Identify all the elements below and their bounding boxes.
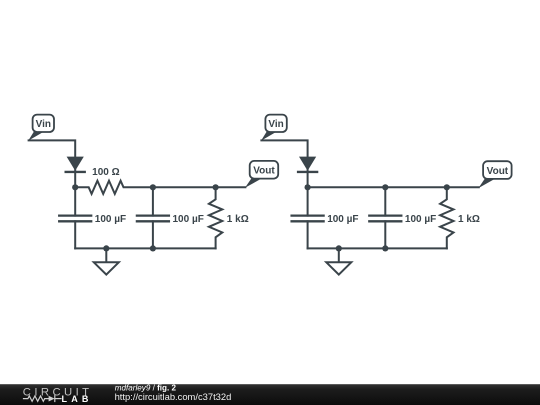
node junction mid rail bottom (left) [150,245,156,251]
net flag Vout (right) [478,161,511,188]
wire Vin left to diode [29,140,76,187]
net flag Vin (left) [28,115,54,141]
wire bottom rail (left circuit) [75,247,215,249]
node junction B (mid rail / top wire) [150,184,156,190]
resistor R 1k vertical (right circuit) [440,187,453,248]
diode D2 [298,157,317,172]
svg-text:100 Ω: 100 Ω [92,167,119,178]
capacitor C4 100uF (right circuit mid rail) [369,187,401,248]
svg-text:1 kΩ: 1 kΩ [227,214,249,225]
node junction A' (right circuit left rail) [305,184,311,190]
resistor R 100 Ohm horizontal [75,181,153,194]
wire node C to Vout flag [216,186,246,188]
node junction C (output node) [213,184,219,190]
capacitor C3 100uF (right circuit left rail) [292,187,324,248]
wire node A' to node B' [308,186,386,188]
svg-text:Vin: Vin [268,119,283,130]
wire Vin right to diode [261,140,307,187]
wire node B' to node C' [385,186,447,188]
svg-text:Vout: Vout [253,166,275,177]
svg-text:http://circuitlab.com/c37t32d: http://circuitlab.com/c37t32d [115,391,232,402]
wire node C' to Vout flag [447,186,479,188]
svg-text:100 µF: 100 µF [95,214,126,225]
ground (right) [326,248,351,274]
diode D1 [66,157,85,172]
capacitor C1 100uF (left rail) [59,187,91,248]
footer bar [0,384,540,405]
svg-text:100 µF: 100 µF [327,214,358,225]
wire node B to node C [153,186,216,188]
svg-text:100 µF: 100 µF [173,214,204,225]
svg-text:Vin: Vin [36,119,51,130]
ground (left) [94,248,119,274]
node junction ground tap (left) [103,245,109,251]
svg-text:1 kΩ: 1 kΩ [458,214,480,225]
node junction C' (right output node) [444,184,450,190]
CircuitLab logo wire with resistor and diode [24,396,62,402]
node junction mid rail bottom (right) [382,245,388,251]
svg-text:100 µF: 100 µF [405,214,436,225]
svg-text:Vout: Vout [487,166,509,177]
net flag Vout (left) [245,161,278,188]
net flag Vin (right) [261,115,287,141]
resistor R 1k vertical (left circuit) [209,187,222,248]
node junction B' (right circuit mid rail) [382,184,388,190]
svg-text:LAB: LAB [62,394,93,404]
wire bottom rail (right circuit) [308,247,447,249]
node junction A (left rail / top wire) [72,184,78,190]
capacitor C2 100uF (mid rail) [137,187,169,248]
node junction ground tap (right) [336,245,342,251]
